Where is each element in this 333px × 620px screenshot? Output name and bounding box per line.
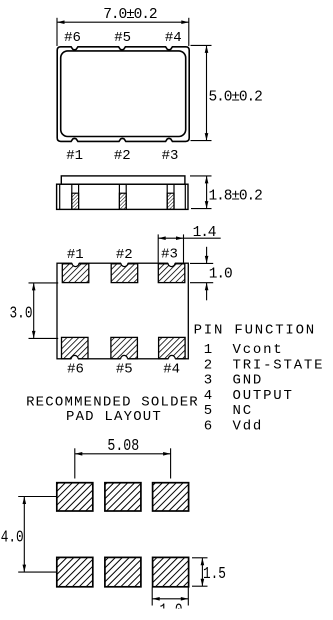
svg-text:#1: #1 bbox=[67, 247, 84, 263]
svg-text:6: 6 bbox=[204, 419, 214, 435]
solder pad #5 bbox=[111, 337, 137, 358]
side view pad 3 bbox=[167, 184, 174, 209]
solder pad #2 bbox=[111, 264, 138, 283]
svg-text:TRI-STATE: TRI-STATE bbox=[233, 358, 325, 374]
side view pad 2 bbox=[119, 184, 126, 209]
svg-text:OUTPUT: OUTPUT bbox=[233, 388, 294, 404]
svg-text:RECOMMENDED SOLDER: RECOMMENDED SOLDER bbox=[26, 395, 199, 411]
svg-text:NC: NC bbox=[233, 403, 253, 419]
svg-text:1: 1 bbox=[204, 342, 214, 358]
svg-text:5.0±0.2: 5.0±0.2 bbox=[209, 89, 263, 105]
svg-text:#5: #5 bbox=[114, 30, 131, 46]
svg-text:#4: #4 bbox=[163, 362, 180, 378]
side view left end seam bbox=[59, 184, 61, 209]
svg-text:#2: #2 bbox=[114, 148, 131, 164]
dimension 1.4 bbox=[158, 225, 221, 263]
svg-text:5.08: 5.08 bbox=[107, 436, 139, 456]
bottom layout pad bottom-right bbox=[153, 557, 189, 586]
svg-text:#3: #3 bbox=[162, 148, 179, 164]
bottom layout pad top-left bbox=[57, 483, 93, 511]
svg-text:PAD LAYOUT: PAD LAYOUT bbox=[66, 409, 162, 425]
top view outer outline with castellation notches bbox=[57, 47, 189, 142]
bottom layout pad bottom-middle bbox=[105, 557, 141, 586]
dimension 1.8±0.2 bbox=[190, 176, 262, 209]
solder pad #1 bbox=[62, 264, 89, 283]
svg-text:#3: #3 bbox=[161, 246, 178, 262]
svg-text:3: 3 bbox=[204, 373, 214, 389]
solder pad #6 bbox=[62, 337, 89, 358]
svg-text:1.8±0.2: 1.8±0.2 bbox=[209, 188, 263, 204]
bottom layout pad top-middle bbox=[105, 483, 141, 511]
svg-text:#5: #5 bbox=[116, 362, 133, 378]
svg-text:#4: #4 bbox=[165, 30, 182, 46]
svg-text:1.5: 1.5 bbox=[203, 563, 226, 583]
svg-text:Vcont: Vcont bbox=[233, 342, 284, 358]
side view right end seam bbox=[184, 184, 186, 209]
castellation notch on pad #4 bbox=[168, 355, 175, 362]
svg-text:4: 4 bbox=[204, 388, 214, 404]
castellation notch on pad #6 bbox=[71, 355, 78, 362]
svg-text:2: 2 bbox=[204, 358, 214, 374]
svg-text:#6: #6 bbox=[67, 362, 84, 378]
castellation notch on pad #1 bbox=[72, 260, 79, 267]
svg-text:7.0±0.2: 7.0±0.2 bbox=[103, 7, 157, 23]
solder pad #4 bbox=[159, 337, 186, 358]
svg-text:#6: #6 bbox=[64, 30, 81, 46]
svg-text:#1: #1 bbox=[66, 148, 83, 164]
castellation notch on pad #5 bbox=[121, 355, 128, 362]
svg-text:4.0: 4.0 bbox=[1, 527, 24, 547]
side view pad 1 bbox=[72, 184, 79, 209]
svg-text:GND: GND bbox=[233, 373, 264, 389]
dimension 1.0 (bottom, clipped) bbox=[150, 588, 195, 620]
svg-text:5: 5 bbox=[204, 403, 214, 419]
svg-text:1.0: 1.0 bbox=[209, 266, 232, 282]
svg-text:3.0: 3.0 bbox=[10, 303, 33, 323]
svg-text:Vdd: Vdd bbox=[233, 419, 264, 435]
castellation notch on pad #2 bbox=[121, 260, 128, 267]
bottom layout pad top-right bbox=[153, 483, 189, 511]
dimension 5.08 bbox=[75, 436, 171, 479]
dimension 7.0±0.2 bbox=[57, 7, 189, 46]
dimension 1.0 (pad height) bbox=[190, 247, 232, 300]
side view base bbox=[57, 184, 188, 209]
dimension 4.0 bbox=[1, 497, 57, 573]
dimension 5.0±0.2 bbox=[191, 45, 263, 140]
dimension 3.0 bbox=[10, 283, 59, 339]
svg-text:#2: #2 bbox=[116, 247, 133, 263]
castellation notch on pad #3 bbox=[168, 260, 175, 267]
bottom layout pad bottom-left bbox=[57, 557, 93, 586]
top view inner body rounded rect bbox=[61, 51, 186, 137]
solder pad #3 bbox=[158, 264, 185, 283]
solder pad layout outline rectangle bbox=[57, 263, 188, 359]
svg-text:1.4: 1.4 bbox=[193, 225, 216, 241]
side view lid bbox=[61, 176, 185, 184]
dimension 1.5 bbox=[192, 558, 226, 586]
svg-text:PIN FUNCTION: PIN FUNCTION bbox=[194, 323, 316, 339]
